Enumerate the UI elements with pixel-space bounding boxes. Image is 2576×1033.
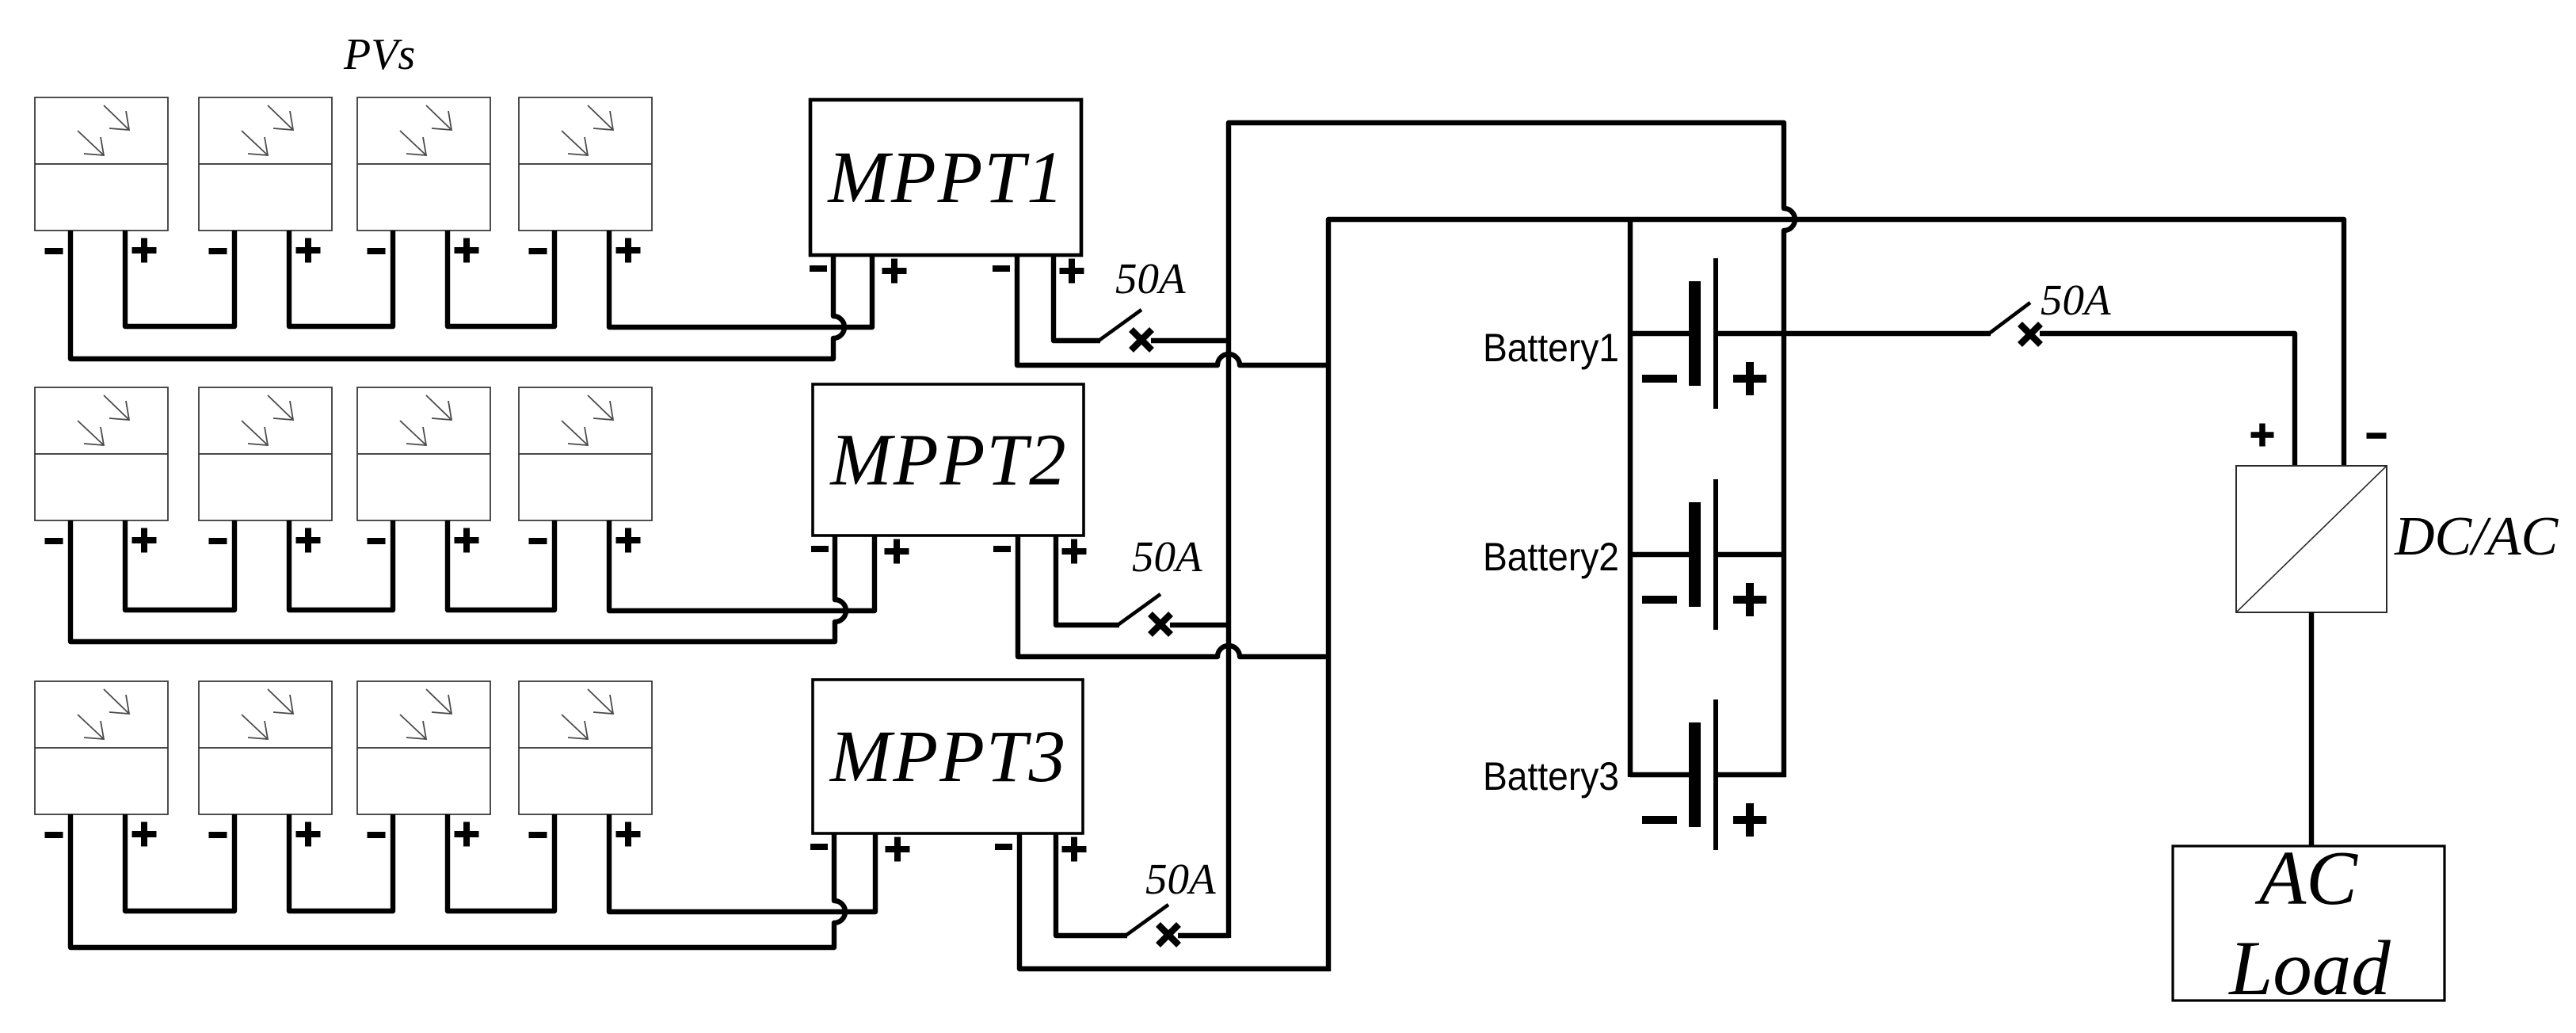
svg-text:Battery3: Battery3 <box>1483 754 1619 799</box>
svg-text:AC: AC <box>2254 836 2358 921</box>
wire: PV 1-4 plus to MPPT1 plus input <box>609 231 872 327</box>
PV panel 3-1 terminal labels <box>45 822 157 847</box>
wire: 50A breaker 3 to PV-plus bus <box>1178 933 1229 938</box>
wire: MPPT1 plus output to 50A breaker 1 <box>1054 255 1100 341</box>
wire: PV 2-4 plus to MPPT2 plus input <box>609 520 875 611</box>
MPPT2 terminal labels <box>811 539 1087 564</box>
battery B2 polarity labels <box>1642 583 1766 616</box>
PV panel 3-1 <box>35 681 168 814</box>
wire: MPPT1 minus output to MPPT-minus bus <box>1017 255 1328 365</box>
MPPT3 controller box <box>813 680 1083 833</box>
PV panel 1-1 <box>35 97 168 231</box>
PV panel 1-3 <box>357 97 490 231</box>
wire: PV 3-2 plus to PV 3-3 minus (series link) <box>289 814 393 911</box>
50A breaker 2 X mark <box>1150 614 1171 635</box>
wire: battery minus bus <box>1628 219 1633 777</box>
wire: PV 1-2 plus to PV 1-3 minus (series link) <box>289 231 393 326</box>
svg-text:MPPT1: MPPT1 <box>826 137 1065 219</box>
battery B2 (Battery2) <box>1630 479 1786 630</box>
svg-text:MPPT3: MPPT3 <box>829 716 1067 798</box>
PV panel 3-2 terminal labels <box>209 822 321 847</box>
PV panel 2-4 terminal labels <box>529 528 641 553</box>
svg-text:DC/AC: DC/AC <box>2394 506 2559 567</box>
wire: PV 2-3 plus to PV 2-4 minus (series link) <box>448 520 554 610</box>
wire: PV 3-1 plus to PV 3-2 minus (series link) <box>125 814 234 911</box>
battery B3 (Battery3) <box>1630 699 1786 850</box>
PV panel 1-4 <box>519 97 652 231</box>
50A breaker 3 switch blade <box>1126 905 1168 936</box>
PV panel 2-2 terminal labels <box>209 528 321 553</box>
50A breaker 4 switch blade <box>1989 303 2030 334</box>
svg-text:50A: 50A <box>1132 532 1202 581</box>
svg-text:MPPT2: MPPT2 <box>829 420 1067 501</box>
wire: PV 2-2 plus to PV 2-3 minus (series link) <box>289 520 393 610</box>
wire: 50A breaker 2 to PV-plus bus <box>1170 623 1229 627</box>
wire: PV 1-1 minus bus to MPPT1 minus input (hops link wire) <box>70 231 844 359</box>
wire: PV 3-1 minus bus to MPPT3 minus input (hops link wire) <box>70 814 845 947</box>
svg-text:50A: 50A <box>1115 254 1186 303</box>
PV panel 3-4 terminal labels <box>529 822 641 847</box>
PV panel 3-3 <box>357 681 490 814</box>
MPPT3 terminal labels <box>810 837 1087 862</box>
svg-text:PVs: PVs <box>343 30 415 79</box>
wire: PV 3-4 plus to MPPT3 plus input <box>609 814 875 912</box>
50A breaker 1 switch blade <box>1099 310 1141 341</box>
PV panel 2-1 <box>35 387 168 520</box>
wire: MPPT2 minus output to MPPT-minus bus <box>1018 536 1328 657</box>
PV panel 3-3 terminal labels <box>368 822 479 847</box>
PV panel 1-1 terminal labels <box>45 238 157 263</box>
battery B1 polarity labels <box>1642 362 1766 395</box>
svg-text:50A: 50A <box>2041 276 2111 324</box>
PV panel 1-3 terminal labels <box>368 238 479 263</box>
svg-text:50A: 50A <box>1145 855 1216 903</box>
wire: 50A breaker 1 to PV-plus bus <box>1151 338 1229 343</box>
PV panel 1-2 <box>199 97 332 231</box>
svg-text:Battery1: Battery1 <box>1483 326 1619 370</box>
50A breaker 2 switch blade <box>1118 594 1160 625</box>
wire: PV-plus bus (breakers) to battery plus bus, hops minus wire <box>1229 123 1795 938</box>
50A breaker 1 X mark <box>1131 330 1152 350</box>
wire: PV 1-1 plus to PV 1-2 minus (series link) <box>125 231 234 326</box>
svg-text:Battery2: Battery2 <box>1483 535 1619 579</box>
50A breaker 4 X mark <box>2020 324 2041 345</box>
wire: PV 2-1 minus bus to MPPT2 minus input (hops link wire) <box>70 520 846 642</box>
wire: DC/AC output to AC Load <box>2309 612 2314 846</box>
PV panel 3-2 <box>199 681 332 814</box>
svg-text:Load: Load <box>2227 925 2391 1012</box>
battery B1 (Battery1) <box>1630 258 1991 409</box>
PV panel 2-4 <box>519 387 652 520</box>
DC/AC inverter terminal labels <box>2251 424 2387 447</box>
wire: MPPT3 plus output to 50A breaker 3 <box>1056 833 1127 936</box>
wire: PV 3-3 plus to PV 3-4 minus (series link) <box>448 814 554 911</box>
AC Load box <box>2173 836 2445 1012</box>
wire: PV 2-1 plus to PV 2-2 minus (series link) <box>125 520 234 610</box>
PV panel 1-4 terminal labels <box>529 238 641 263</box>
MPPT1 terminal labels <box>810 259 1084 284</box>
PV panel 2-1 terminal labels <box>45 528 157 553</box>
MPPT2 controller box <box>813 384 1084 536</box>
wire: PV 1-3 plus to PV 1-4 minus (series link) <box>448 231 554 326</box>
wire: MPPT2 plus output to 50A breaker 2 <box>1056 536 1119 625</box>
MPPT1 controller box <box>810 100 1081 255</box>
50A breaker 3 X mark <box>1158 924 1179 945</box>
battery B3 polarity labels <box>1642 803 1766 837</box>
PV panel 1-2 terminal labels <box>209 238 321 263</box>
DC/AC inverter U1 <box>2236 466 2387 612</box>
wire: MPPT3 minus output to MPPT-minus bus <box>1019 833 1331 969</box>
PV panel 2-3 terminal labels <box>368 528 479 553</box>
wire: MPPT-minus bus to DC/AC minus terminal <box>1328 219 2344 971</box>
PV panel 2-2 <box>199 387 332 520</box>
PV panel 3-4 <box>519 681 652 814</box>
wire: breaker 4 to DC/AC plus terminal <box>2040 334 2295 468</box>
PV panel 2-3 <box>357 387 490 520</box>
